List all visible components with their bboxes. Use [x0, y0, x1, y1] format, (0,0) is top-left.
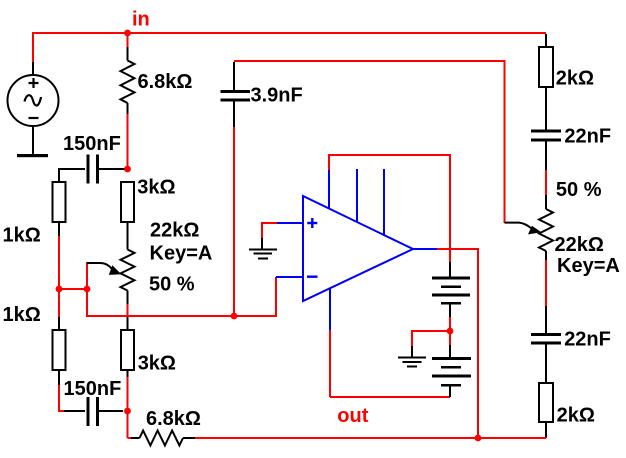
svg-text:2kΩ: 2kΩ: [557, 405, 595, 427]
svg-text:out: out: [337, 405, 368, 427]
svg-text:22kΩ: 22kΩ: [150, 220, 199, 242]
svg-text:3kΩ: 3kΩ: [138, 352, 176, 374]
svg-text:22nF: 22nF: [564, 126, 611, 148]
svg-text:6.8kΩ: 6.8kΩ: [138, 71, 193, 93]
svg-text:22kΩ: 22kΩ: [555, 234, 604, 256]
svg-text:22nF: 22nF: [564, 329, 611, 351]
svg-text:1kΩ: 1kΩ: [3, 304, 41, 326]
svg-text:3.9nF: 3.9nF: [251, 85, 303, 107]
svg-text:3kΩ: 3kΩ: [137, 176, 175, 198]
svg-text:Key=A: Key=A: [557, 255, 620, 277]
svg-text:150nF: 150nF: [64, 378, 122, 400]
svg-text:2kΩ: 2kΩ: [556, 68, 594, 90]
svg-text:6.8kΩ: 6.8kΩ: [146, 408, 201, 430]
svg-text:50 %: 50 %: [149, 273, 195, 295]
svg-text:Key=A: Key=A: [150, 243, 213, 265]
svg-text:150nF: 150nF: [63, 133, 121, 155]
svg-text:in: in: [132, 9, 150, 31]
svg-text:1kΩ: 1kΩ: [3, 225, 41, 247]
svg-text:50 %: 50 %: [556, 179, 602, 201]
